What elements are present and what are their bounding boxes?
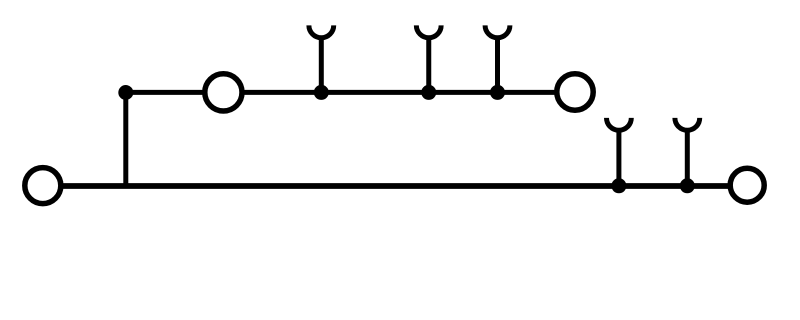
wire: upper bus segment from disconnect circle to terminal 3 [241,90,557,95]
plug-in tap P4 (fork symbol on bottom bus) [607,118,632,186]
node B (junction dot on upper bus) [314,85,329,100]
node E (junction dot on bottom bus) [611,178,626,193]
plug-in tap P3 (fork symbol on upper bus) [485,25,510,92]
node D (junction dot on upper bus) [490,85,505,100]
node A (junction dot at branch corner) [118,85,133,100]
plug-in tap P1 (fork symbol on upper bus) [309,25,334,92]
terminal 2 (right screw connection circle) [730,168,764,202]
wire: bottom bus from left terminal to right terminal [60,183,730,189]
node C (junction dot on upper bus) [421,85,436,100]
plug-in tap P5 (fork symbol on bottom bus) [675,118,700,186]
terminal 1 (left screw connection circle) [25,168,61,204]
node F (junction dot on bottom bus) [680,178,695,193]
wire: upper bus segment from node A to disconnect circle [126,90,206,95]
wire: vertical branch from bottom bus to upper bus [123,92,128,186]
disconnect circle (inline component on upper bus) [205,74,242,111]
terminal 3 (upper right screw connection circle) [557,74,593,110]
plug-in tap P2 (fork symbol on upper bus) [416,25,441,92]
